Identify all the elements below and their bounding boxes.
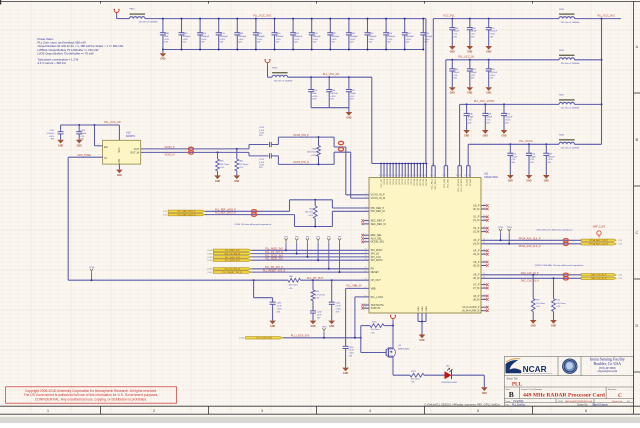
svg-text:10000pF: 10000pF	[369, 36, 378, 38]
svg-text:PLL_LOCK: PLL_LOCK	[371, 296, 384, 299]
svg-text:MODE_SEL: MODE_SEL	[371, 241, 385, 244]
capacitor C231	[329, 279, 342, 320]
wire PLL_LOCK	[283, 297, 369, 339]
svg-text:10000pF: 10000pF	[257, 36, 266, 38]
svg-text:+/-1%: +/-1%	[311, 155, 317, 157]
capacitor C189	[179, 18, 192, 51]
svg-text:U3_M: U3_M	[473, 243, 480, 246]
LED D67	[441, 366, 457, 384]
svg-text:<5%: <5%	[80, 135, 84, 138]
svg-text:LVPECL 800 MHz 100 ohm differe: LVPECL 800 MHz 100 ohm differential impe…	[535, 264, 584, 267]
svg-text:[C6B]: [C6B]	[207, 269, 212, 271]
svg-text:25: 25	[365, 303, 367, 305]
svg-text:46: 46	[456, 175, 458, 177]
wire PRI_REF_P	[205, 200, 369, 212]
svg-text:21: 21	[483, 260, 485, 262]
wire drain	[393, 359, 410, 376]
svg-text:Project / Part Number: Project / Part Number	[521, 388, 542, 391]
wire VCC pin pair 3	[458, 166, 461, 178]
wire VCC pin pair 1	[432, 163, 435, 178]
svg-text:18: 18	[412, 175, 414, 177]
net label VCXO PIN N	[293, 161, 309, 164]
svg-text:VCXO_N: VCXO_N	[165, 153, 175, 156]
svg-text:<5%: <5%	[468, 118, 472, 121]
svg-text:<5%: <5%	[471, 33, 475, 36]
svg-text:VBB: VBB	[371, 287, 376, 290]
svg-text:origeon@ucar.edu: origeon@ucar.edu	[597, 370, 617, 373]
svg-text:[C8]: [C8]	[618, 240, 622, 242]
svg-text:<20%: <20%	[312, 95, 317, 98]
designator U10	[126, 131, 136, 138]
svg-text:VCC13: VCC13	[423, 178, 425, 186]
svg-text:<10%: <10%	[369, 38, 374, 41]
svg-text:GND: GND	[310, 326, 315, 328]
wire PLL_VCC_3V3 (after FB12)	[575, 18, 621, 145]
net label PLL VCC CP	[104, 120, 121, 124]
wire VCXO_P	[141, 145, 269, 149]
net label VCC PLL	[443, 14, 455, 18]
svg-text:40: 40	[379, 175, 381, 177]
svg-text:VCCA1: VCCA1	[465, 178, 468, 186]
wire source	[392, 325, 394, 344]
svg-text:10000pF: 10000pF	[406, 36, 415, 38]
wire PLL_VCCA rail	[468, 144, 601, 165]
svg-text:DAC_CLK_IN_N: DAC_CLK_IN_N	[521, 279, 539, 282]
svg-text:U0_M: U0_M	[473, 208, 480, 211]
test point TP63	[507, 227, 513, 245]
wire VCO_TUNE	[68, 155, 102, 157]
svg-text:DAC_CLK_IN_P: DAC_CLK_IN_P	[521, 272, 539, 275]
net label VCXO P	[165, 146, 175, 149]
svg-text:GND: GND	[486, 52, 491, 54]
port DAC_CLK_IN_P	[581, 274, 617, 277]
svg-text:Revision: Revision	[608, 389, 617, 391]
resistor R63	[307, 136, 321, 165]
svg-text:PLL_VCC_VCXO: PLL_VCC_VCXO	[474, 99, 494, 103]
svg-text:17: 17	[415, 175, 417, 177]
sheet entry tag	[207, 272, 212, 274]
capacitor C201	[402, 18, 415, 51]
svg-text:<5%: <5%	[486, 118, 490, 121]
ground	[485, 46, 492, 54]
wire VCC_PLL rail	[433, 19, 559, 166]
capacitor C166	[467, 18, 478, 46]
svg-text:B: B	[509, 390, 514, 399]
svg-text:10 kOhms: 10 kOhms	[371, 329, 380, 331]
svg-text:TLMS1100-GS08: TLMS1100-GS08	[441, 382, 457, 384]
port PLL_MISO_3V3	[213, 249, 251, 252]
wire	[251, 249, 369, 251]
svg-text:VCC7: VCC7	[405, 178, 407, 184]
svg-text:PLL_RESET_3V3_N: PLL_RESET_3V3_N	[223, 272, 243, 274]
svg-text:<5%: <5%	[530, 158, 534, 161]
svg-text:16: 16	[483, 230, 485, 232]
svg-text:<10%: <10%	[505, 118, 510, 121]
svg-text:VCC: VCC	[118, 147, 121, 152]
capacitor C167	[486, 18, 498, 46]
svg-text:RESET: RESET	[371, 271, 380, 274]
wire DAC_CLK_IN_N	[481, 277, 581, 279]
wire PLL_VCC_CP rail	[288, 77, 372, 163]
svg-text:23: 23	[397, 175, 399, 177]
note contact info	[590, 357, 625, 373]
wire PLL_VCC_IN rail	[446, 60, 602, 166]
net label PLL_SCLK_3V3	[265, 254, 283, 257]
resistor R68	[288, 276, 301, 290]
ferrite bead FB12	[559, 9, 579, 24]
svg-text:22uF: 22uF	[317, 314, 322, 316]
differential pair marker	[338, 141, 343, 151]
ground	[342, 368, 349, 376]
svg-text:100pF: 100pF	[471, 72, 477, 74]
port PLL_MOSI_3V3	[213, 259, 251, 262]
svg-text:VCC3: VCC3	[393, 178, 395, 184]
svg-text:1: 1	[47, 409, 49, 413]
capacitor C212	[76, 124, 87, 141]
svg-text:GND: GND	[160, 59, 165, 61]
svg-text:<10%: <10%	[406, 38, 411, 41]
capacitor C191	[216, 18, 229, 51]
svg-text:FPGA_AUX_CLK_P: FPGA_AUX_CLK_P	[519, 238, 541, 241]
svg-text:6.3V: 6.3V	[312, 99, 317, 101]
ferrite bead FB15	[559, 50, 579, 65]
svg-text:<10%: <10%	[313, 38, 318, 41]
svg-text:Power Calcs:: Power Calcs:	[38, 37, 54, 41]
net label VCO TUNE	[77, 154, 91, 157]
svg-text:5: 5	[477, 409, 479, 413]
wire VBB	[346, 287, 369, 289]
svg-text:[C6B]: [C6B]	[207, 272, 212, 274]
resistor R65	[216, 151, 229, 175]
svg-text:PLL_CP_OUT: PLL_CP_OUT	[307, 277, 323, 280]
wire PLL_VCC_CP rail (U10)	[61, 125, 120, 140]
ferrite bead FB13	[130, 9, 158, 24]
svg-text:0.1uF: 0.1uF	[336, 306, 342, 308]
ground	[214, 175, 221, 183]
svg-text:1: 1	[99, 155, 100, 157]
svg-text:PLL_VCCA: PLL_VCCA	[519, 139, 533, 143]
ground	[310, 321, 317, 329]
svg-text:0.1uF: 0.1uF	[349, 350, 355, 352]
transistor U10 body (600MHz VCXO)	[103, 140, 141, 164]
svg-text:PLL_PD_3V3_N: PLL_PD_3V3_N	[225, 269, 241, 271]
svg-text:220 Ohm @ 100MHz: 220 Ohm @ 100MHz	[561, 63, 580, 65]
svg-text:FB13: FB13	[130, 9, 136, 11]
svg-text:Copyright 2008-2018 University: Copyright 2008-2018 University Corporati…	[25, 389, 157, 393]
svg-text:0.022uF: 0.022uF	[505, 117, 513, 119]
svg-text:<5%: <5%	[453, 74, 457, 77]
svg-text:+/-1%: +/-1%	[308, 215, 314, 217]
net label FPGA AUX CLK P	[519, 238, 541, 241]
svg-text:100pF: 100pF	[511, 156, 517, 158]
capacitor C197	[327, 18, 340, 51]
ground	[328, 321, 335, 329]
test point TP4	[306, 236, 311, 258]
svg-text:VCC9: VCC9	[411, 178, 413, 184]
sheet entry tag	[207, 249, 212, 252]
svg-text:PLL_VCC_CP: PLL_VCC_CP	[323, 72, 340, 76]
svg-text:CONFIDENTIAL. Any unauthorized: CONFIDENTIAL. Any unauthorized use, copy…	[35, 398, 147, 402]
svg-text:8: 8	[366, 234, 367, 236]
sheet entry tag	[207, 253, 212, 256]
svg-text:<10%: <10%	[183, 38, 188, 41]
svg-text:<10%: <10%	[201, 38, 206, 41]
capacitor C230	[253, 279, 283, 320]
svg-text:10000pF: 10000pF	[183, 36, 192, 38]
svg-text:LVDS Output Buffers 75 mW/buff: LVDS Output Buffers 75 mW/buffer => 75 m…	[38, 51, 94, 55]
svg-text:14: 14	[483, 219, 485, 221]
svg-text:<10%: <10%	[276, 38, 281, 41]
svg-text:<1%: <1%	[556, 305, 560, 308]
svg-text:STATUS: STATUS	[371, 307, 381, 310]
svg-text:VCC5: VCC5	[399, 178, 401, 184]
svg-text:12: 12	[433, 175, 435, 177]
no-connect marks (left pins)	[361, 219, 369, 309]
svg-text:220 Ohm @ 100MHz: 220 Ohm @ 100MHz	[139, 22, 158, 24]
test point TP18	[89, 267, 95, 281]
svg-text:PLL_REF_LVDS_P: PLL_REF_LVDS_P	[178, 211, 196, 213]
svg-text:100 Ohms: 100 Ohms	[307, 152, 316, 154]
svg-text:[C8]: [C8]	[163, 211, 167, 213]
svg-text:<5%: <5%	[350, 95, 354, 98]
svg-text:U5_M: U5_M	[473, 264, 480, 267]
net label PLL VCC CP (rail)	[323, 72, 340, 76]
svg-text:GND: GND	[483, 136, 488, 138]
svg-text:38: 38	[385, 175, 387, 177]
ground	[467, 87, 474, 95]
svg-text:10000pF: 10000pF	[276, 36, 285, 38]
resistor R69	[311, 279, 325, 311]
svg-text:0.022uF: 0.022uF	[490, 31, 498, 33]
net label PLL VCC VCXO	[474, 99, 494, 103]
title sheet name	[507, 378, 523, 388]
capacitor C194	[272, 18, 285, 51]
wire	[251, 256, 369, 258]
resistor R174	[410, 371, 445, 384]
net label FPGA AUX CLK N	[519, 245, 541, 248]
svg-text:13: 13	[430, 175, 432, 177]
test point TP16	[322, 326, 328, 338]
svg-text:10uF: 10uF	[312, 93, 317, 95]
svg-text:VCXO_PIN_P: VCXO_PIN_P	[293, 134, 309, 137]
svg-text:[C8]: [C8]	[163, 214, 167, 216]
wire VCO_TUNE vertical	[67, 157, 69, 280]
pin names (right)	[462, 204, 480, 312]
svg-text:220 Ohm @ 100MHz: 220 Ohm @ 100MHz	[274, 80, 293, 82]
wire VCC pin pair 4	[467, 166, 470, 178]
svg-text:C: C	[635, 231, 638, 235]
svg-text:100 Ohms: 100 Ohms	[289, 285, 298, 287]
net label PLL VCC 3V3 (right)	[598, 15, 616, 18]
svg-text:<10%: <10%	[238, 38, 243, 41]
svg-text:<10%: <10%	[294, 38, 299, 41]
svg-text:GND: GND	[486, 93, 491, 95]
ground	[526, 175, 533, 183]
svg-text:PLL_SCLK_3V3: PLL_SCLK_3V3	[225, 257, 241, 259]
ground (CP bank)	[346, 108, 353, 120]
svg-text:GND: GND	[419, 340, 424, 342]
svg-text:GND: GND	[501, 136, 506, 138]
svg-text:19: 19	[409, 175, 411, 177]
svg-text:GND: GND	[526, 181, 531, 183]
svg-text:U1_M: U1_M	[473, 219, 480, 222]
svg-text:PLL_VCC_3V3: PLL_VCC_3V3	[253, 14, 271, 18]
svg-text:150 Ohms: 150 Ohms	[220, 164, 229, 166]
ground	[482, 130, 489, 138]
svg-text:Date: Date	[506, 400, 511, 403]
net label DAC CLK IN N	[521, 279, 539, 282]
net label PLL LOCK 3V3	[291, 335, 310, 338]
svg-text:FPGA_AUX_CLK_N: FPGA_AUX_CLK_N	[589, 243, 608, 246]
svg-text:10: 10	[365, 240, 367, 242]
svg-text:10000pF: 10000pF	[313, 36, 322, 38]
note copyright	[6, 387, 177, 403]
svg-text:43: 43	[468, 175, 470, 177]
net label PLL VCC IN	[458, 55, 474, 59]
svg-text:D: D	[635, 324, 638, 328]
svg-text:VCC_IN1: VCC_IN1	[444, 178, 446, 188]
svg-text:25: 25	[483, 283, 485, 285]
svg-text:26: 26	[483, 287, 485, 289]
svg-text:<10%: <10%	[330, 95, 335, 98]
svg-text:VCXO_P: VCXO_P	[165, 146, 175, 149]
capacitor C203	[467, 59, 478, 87]
svg-text:220 Ohm @ 100MHz: 220 Ohm @ 100MHz	[561, 22, 580, 24]
test point TP3	[295, 236, 300, 254]
ground	[449, 46, 456, 54]
svg-text:U4_M: U4_M	[473, 253, 480, 256]
test point TP64	[498, 227, 504, 241]
svg-text:22: 22	[483, 264, 485, 266]
net label PLL VBB 3V	[346, 284, 362, 287]
svg-text:VCC6: VCC6	[402, 178, 404, 184]
port PLL_RESET_3V3_N	[213, 271, 251, 274]
svg-text:PLL_VCC_CP: PLL_VCC_CP	[104, 120, 121, 124]
svg-text:PLL_VCC_3V3: PLL_VCC_3V3	[598, 15, 616, 18]
wire PLL_VCC_3V3 rail	[145, 19, 426, 164]
ferrite bead FB17	[559, 95, 579, 110]
sheet entry tag	[207, 269, 212, 271]
svg-text:PLL_REF_LVDS_N: PLL_REF_LVDS_N	[178, 214, 196, 216]
svg-text:<10%: <10%	[547, 158, 552, 161]
svg-text:FPGA_AUX_CLK_P: FPGA_AUX_CLK_P	[589, 239, 608, 242]
svg-text:PLL_LOCK_3V3: PLL_LOCK_3V3	[257, 338, 273, 340]
ferrite bead FB16	[559, 135, 579, 150]
svg-text:CDCE72010: CDCE72010	[484, 176, 499, 179]
svg-text:<10%: <10%	[49, 135, 54, 138]
svg-text:26: 26	[365, 307, 367, 309]
capacitor C211	[47, 125, 64, 141]
svg-text:C: C	[618, 393, 622, 399]
ground	[449, 87, 456, 95]
differential pair marker	[251, 210, 256, 217]
svg-text:<10%: <10%	[424, 38, 429, 41]
svg-text:GND: GND	[467, 93, 472, 95]
svg-text:VCC_IN2: VCC_IN2	[447, 178, 449, 188]
capacitor C233	[343, 288, 355, 367]
ground (LED)	[481, 387, 488, 395]
svg-text:[C8]: [C8]	[618, 275, 622, 277]
svg-text:DMP2234U: DMP2234U	[398, 349, 410, 351]
svg-text:4: 4	[369, 409, 371, 413]
svg-text:<10%: <10%	[349, 352, 354, 355]
svg-text:0.022uF: 0.022uF	[547, 156, 555, 158]
svg-text:U8_M: U8_M	[473, 298, 480, 301]
capacitor C207	[346, 76, 357, 108]
logo Earth Observing Laboratory	[562, 359, 577, 374]
svg-text:VCC_PLL2: VCC_PLL2	[435, 178, 437, 189]
ground	[530, 320, 537, 328]
wire chip top VCC bundle	[372, 163, 428, 178]
svg-text:VCC0: VCC0	[384, 178, 386, 184]
port PLL_PD_3V3_N	[213, 268, 251, 271]
wire cap-bank bottom bar	[311, 107, 349, 109]
svg-text:<5%: <5%	[453, 33, 457, 36]
svg-text:100pF: 100pF	[486, 117, 492, 119]
svg-text:PLL: PLL	[512, 382, 523, 388]
svg-text:<10%: <10%	[277, 307, 282, 310]
svg-text:<10%: <10%	[331, 38, 336, 41]
wire EN	[94, 124, 103, 146]
svg-text:11: 11	[483, 204, 485, 206]
svg-text:10uF: 10uF	[164, 36, 169, 38]
wire	[251, 259, 369, 261]
svg-text:VCC11: VCC11	[417, 178, 419, 185]
svg-text:10000pF: 10000pF	[294, 36, 303, 38]
op-amp U11 body (CDCE72010)	[369, 178, 481, 313]
power port 3V3 (FB14)	[265, 59, 271, 77]
svg-text:FB15: FB15	[559, 50, 565, 52]
svg-text:<10%: <10%	[490, 74, 495, 77]
ground	[463, 130, 470, 138]
svg-text:150 Ohms: 150 Ohms	[536, 303, 545, 305]
net label PLL VCCA	[519, 139, 533, 143]
note file path	[424, 403, 500, 406]
svg-text:21: 21	[403, 175, 405, 177]
svg-text:10000pF: 10000pF	[424, 36, 433, 38]
ground	[57, 140, 64, 148]
capacitor C195	[290, 18, 303, 51]
svg-text:[C6B]: [C6B]	[239, 338, 244, 340]
capacitor C216	[526, 143, 537, 175]
svg-text:GND: GND	[215, 181, 220, 183]
svg-text:100 Ohms: 100 Ohms	[411, 378, 420, 380]
test point TP6	[327, 236, 332, 269]
svg-text:LVDS 100 ohm differential impe: LVDS 100 ohm differential impedance	[536, 228, 573, 231]
svg-text:OUT: OUT	[134, 147, 140, 151]
port FPGA_AUX_CLK_P	[581, 239, 617, 242]
svg-text:28: 28	[483, 298, 485, 300]
wire DAC_CLK_IN_P	[481, 274, 581, 276]
capacitor C202	[420, 18, 433, 51]
svg-text:4: 4	[366, 219, 367, 221]
svg-text:CP_OUT: CP_OUT	[371, 279, 382, 282]
capacitor C192	[234, 18, 247, 51]
wire gate	[360, 326, 384, 353]
svg-text:220 Ohm @ 100MHz: 220 Ohm @ 100MHz	[561, 148, 580, 150]
svg-text:14: 14	[424, 175, 426, 177]
ground	[543, 175, 550, 183]
ground	[507, 175, 514, 183]
sheet entry tag	[618, 275, 622, 281]
sheet entry tag	[163, 211, 167, 216]
svg-text:U9_P+AUXIN_P: U9_P+AUXIN_P	[462, 306, 479, 309]
svg-text:6.3V: 6.3V	[164, 42, 169, 44]
svg-text:100pF: 100pF	[80, 133, 86, 135]
resistor R70	[531, 274, 545, 320]
svg-text:The US Government is authorize: The US Government is authorized full use…	[24, 393, 159, 397]
svg-text:GND: GND	[482, 393, 487, 395]
